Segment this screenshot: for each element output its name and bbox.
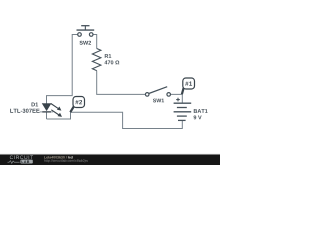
LED D1 xyxy=(40,104,62,117)
resistor R1 xyxy=(92,49,101,71)
watermark user / circuit name xyxy=(44,156,66,159)
wire: battery bottom rail back to LED cathode xyxy=(47,112,183,128)
wire: SW1 right terminal to battery plus xyxy=(170,94,182,103)
label R1 xyxy=(105,54,112,58)
node flag #2 xyxy=(70,97,84,113)
node flag #1 xyxy=(182,78,195,94)
label 9 V xyxy=(194,115,202,119)
wire: R1 bottom to SW1 left terminal xyxy=(97,71,146,95)
wire: LED cathode lead xyxy=(46,112,48,119)
switch SW1 xyxy=(145,87,170,97)
label SW1 xyxy=(153,99,164,103)
battery BAT1 xyxy=(174,98,192,121)
label SW2 xyxy=(80,41,92,45)
label 470 ohm xyxy=(104,60,119,64)
watermark bar xyxy=(0,154,220,165)
label D1 xyxy=(32,103,39,107)
watermark CircuitLab logo xyxy=(8,156,34,164)
label LTL-307EE xyxy=(10,109,39,113)
label BAT1 xyxy=(194,109,208,113)
pushbutton SW2 xyxy=(77,26,95,37)
wire: SW2 right terminal to R1 top xyxy=(93,35,97,49)
watermark url xyxy=(44,159,88,162)
wire: SW2 left terminal down left branch to LED anode xyxy=(47,35,78,105)
